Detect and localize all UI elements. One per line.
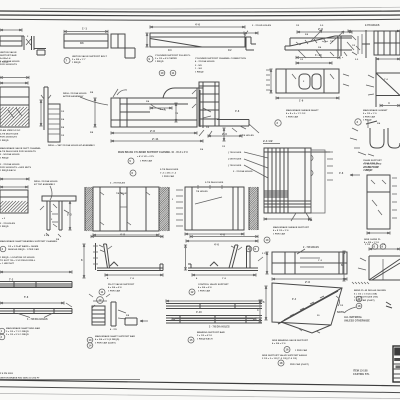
svg-text:2'-0: 2'-0 <box>222 132 227 136</box>
svg-text:2 - 7/8 HOLES: 2 - 7/8 HOLES <box>0 223 16 225</box>
svg-text:3 x 1/2 x 7'-2 1 REQD: 3 x 1/2 x 7'-2 1 REQD <box>6 331 29 333</box>
svg-text:2 - 7/8 HD HOLES: 2 - 7/8 HD HOLES <box>252 25 271 27</box>
detail: gusset plate wedge (right) <box>366 57 400 107</box>
detail: shim post with balloon <box>89 294 148 331</box>
svg-text:+ 1 HEX NUT: + 1 HEX NUT <box>0 263 15 265</box>
note: drill holes leader (left) <box>34 180 58 200</box>
caption: second note bottom-left <box>0 256 36 265</box>
caption: main brake sheave shaft bearing <box>275 109 319 126</box>
detail: main brake sheave shaft bearing plate <box>266 53 349 103</box>
detail: left angle with hatching <box>0 177 29 228</box>
svg-text:4'-0: 4'-0 <box>214 243 219 247</box>
caption: uniton valve support note <box>0 163 31 172</box>
marks near bend note <box>386 302 392 308</box>
detail: long flat bar no.2 (cropped left) <box>0 296 72 314</box>
svg-text:2'-6: 2'-6 <box>150 129 155 133</box>
svg-text:2 - 5/8: 2 - 5/8 <box>195 65 202 67</box>
detail: uniton valve support bar 2 with dimension 1'-1 <box>64 27 135 59</box>
caption: main brake shaft support <box>87 335 135 348</box>
callout circles below channel <box>246 246 259 252</box>
callout circles under filler plate caption <box>159 70 176 76</box>
detail: main support housing (left, cropped) <box>0 76 29 127</box>
svg-text:3/8: 3/8 <box>80 42 84 45</box>
sheet bottom border faint line 3 <box>0 393 400 398</box>
svg-text:4'-8: 4'-8 <box>120 233 125 237</box>
svg-text:1 REQD: 1 REQD <box>195 71 204 73</box>
svg-text:2-4 1/2: 2-4 1/2 <box>263 139 273 143</box>
svg-text:ITEM 13-158: ITEM 13-158 <box>353 370 368 373</box>
detail: pilot valve support bracket A (left) <box>81 233 163 281</box>
svg-text:6 x 1/2 x 1'-8 (13-158): 6 x 1/2 x 1'-8 (13-158) <box>354 293 377 295</box>
svg-text:THIS SIDE PL: THIS SIDE PL <box>364 163 379 165</box>
detail: side bearing valve support plan (box) <box>265 247 347 284</box>
detail: U-bolt clevis pair <box>350 120 400 156</box>
caption: pilot valve support B <box>189 283 229 295</box>
sheet top border line 1 <box>0 11 400 12</box>
detail: cylinder support channel (ladder bracket) <box>192 82 259 151</box>
caption: side plate <box>364 239 386 249</box>
svg-text:1'-1: 1'-1 <box>82 27 87 31</box>
svg-text:NOTE -: NOTE - <box>337 311 346 314</box>
svg-text:{ 7/8 HOLES: { 7/8 HOLES <box>228 165 242 167</box>
svg-text:7/8 HOLES: 7/8 HOLES <box>196 191 208 193</box>
note: hole leaders for sheave support <box>228 152 268 178</box>
detail: vertical rib of main support housing <box>39 87 51 130</box>
sheet bottom border line 1 <box>0 380 400 386</box>
svg-text:ALL MATERIAL: ALL MATERIAL <box>344 316 363 319</box>
svg-text:{ 7/8 HOLES: { 7/8 HOLES <box>228 152 242 154</box>
svg-text:1/2: 1/2 <box>228 49 232 52</box>
svg-text:F 8 PN 2053: F 8 PN 2053 <box>0 373 14 375</box>
svg-text:CYLINDER SUPPORT FILLER PL: CYLINDER SUPPORT FILLER PL <box>155 55 191 57</box>
sheet top border line 2 <box>0 14 400 17</box>
svg-text:1 REQD: 1 REQD <box>155 61 164 63</box>
note: text right of center caption <box>233 170 253 173</box>
svg-text:{ 5/8 HOLES: { 5/8 HOLES <box>228 159 242 161</box>
bottom-left revision text line 2 <box>0 376 140 379</box>
sheet top border line 3 <box>0 18 400 21</box>
detail: support angle bars (center) <box>166 299 262 328</box>
svg-text:1 REQD: 1 REQD <box>0 226 9 228</box>
caption: this side plate note (right) <box>364 163 380 172</box>
svg-text:7/8 HOLES: 7/8 HOLES <box>116 193 128 195</box>
note: holes text above weldment <box>252 25 324 27</box>
svg-text:UNLESS OTHERWISE: UNLESS OTHERWISE <box>344 320 370 323</box>
svg-text:1 REQD: 1 REQD <box>0 140 9 142</box>
caption: side bearing valve support <box>272 339 309 353</box>
detail: brake lever weldment (top right-center) <box>285 27 352 56</box>
caption: holes note left <box>0 60 20 66</box>
svg-text:CASTING STL: CASTING STL <box>353 373 370 376</box>
caption: main brake valve support channel left <box>0 147 41 159</box>
svg-text:4'-8: 4'-8 <box>220 233 225 237</box>
svg-text:4'-10: 4'-10 <box>196 311 202 314</box>
detail: step bracket next to top-left bar <box>26 36 46 55</box>
caption: cylinder support filler plate <box>147 55 191 63</box>
caption: uniton valve support bolt <box>64 55 107 64</box>
detail: main brake support channel (right half) <box>172 181 258 247</box>
svg-text:1/4: 1/4 <box>168 49 172 52</box>
detail: main brake support channel (hatched box left half) <box>85 183 169 237</box>
note: 2 dia holes (top right) <box>365 25 380 27</box>
svg-text:2 - 7/8 HOLES: 2 - 7/8 HOLES <box>110 183 126 185</box>
detail: small angle clip <box>244 30 258 50</box>
detail: end support plate (top far right, cropped) <box>348 29 400 58</box>
detail: support bar plate (top-left, cropped) <box>0 28 24 50</box>
svg-text:3 1/2 x 3 x 1/2 (1'-2 1/2) (2': 3 1/2 x 3 x 1/2 (1'-2 1/2) (2'-0 1/2) <box>262 358 297 360</box>
svg-text:5 x 5: 5 x 5 <box>160 109 166 111</box>
svg-text:1 REQD: 1 REQD <box>363 120 372 122</box>
svg-text:6 x 1/2 x 1'-0: 6 x 1/2 x 1'-0 <box>363 113 377 115</box>
sheet bottom border line 2 <box>0 387 400 393</box>
svg-text:2'-11: 2'-11 <box>152 137 159 141</box>
svg-text:1'-10: 1'-10 <box>315 53 322 57</box>
caption: main sheave support beam <box>264 226 310 243</box>
caption: cylinder support channel connection <box>195 57 246 73</box>
note: drill and tap holes after assembly <box>63 92 108 105</box>
caption: uniton valve support bar <box>0 51 17 63</box>
svg-text:4'-6: 4'-6 <box>195 23 200 27</box>
detail: side bearing valve support elevation with diagonals <box>263 283 344 333</box>
svg-text:2-7/8 HOLES: 2-7/8 HOLES <box>365 25 380 27</box>
detail: taper wedge (bottom right) <box>341 244 400 284</box>
svg-text:2 - 7/8 HOLES: 2 - 7/8 HOLES <box>303 247 319 249</box>
svg-text:1'-6: 1'-6 <box>299 100 304 103</box>
detail: tee bracket <box>40 196 76 241</box>
svg-text:2 x 3/8 x 1'-7: 2 x 3/8 x 1'-7 <box>72 59 86 61</box>
caption: pilot valve support A <box>99 283 135 295</box>
svg-text:3 1/2: 3 1/2 <box>365 244 371 246</box>
svg-text:1 REQD: 1 REQD <box>72 62 81 64</box>
note: drill and tap line under assembly <box>48 144 95 147</box>
svg-text:1 REQD: 1 REQD <box>0 157 9 159</box>
svg-text:2-7/8 HOLES: 2-7/8 HOLES <box>240 135 254 137</box>
svg-text:4'-6: 4'-6 <box>339 172 344 175</box>
caption: main brake and sheave support center <box>118 151 188 178</box>
caption: side support valve support angle bottom-center <box>262 354 309 366</box>
bottom-left revision text line 1 <box>0 373 14 375</box>
sheet top border faint outer line <box>40 7 400 9</box>
caption: bend plate note (dense block) <box>344 289 386 313</box>
detail: pilot valve support bracket B (right) <box>184 233 268 281</box>
caption: main brake gusset <box>355 109 388 125</box>
svg-text:1 REQD: 1 REQD <box>364 170 373 172</box>
caption: brake shaft bearing bars <box>0 327 40 340</box>
note: all material mild steel <box>337 311 370 323</box>
caption: brake shaft support bottom-left <box>0 240 58 252</box>
detail: main brake cylinder support assembly (large center box) <box>90 88 211 143</box>
svg-text:TO SUIT 7/8 x 3 1/2 FIELD DRIL: TO SUIT 7/8 x 3 1/2 FIELD DRILL <box>0 260 36 262</box>
svg-text:2'-6: 2'-6 <box>305 280 310 284</box>
detail: main sheave support beam (tall hatched box) <box>240 135 360 222</box>
detail: tapered filler plate with diagonal <box>145 23 245 53</box>
label: item 13-158 casting stl <box>353 370 370 376</box>
caption: bearing support bars <box>188 331 225 343</box>
note rows under housing <box>0 129 21 142</box>
svg-text:SIDE GUIDE PL: SIDE GUIDE PL <box>364 239 381 241</box>
detail: side plate box (right) <box>367 175 397 235</box>
detail: long flat bar no.1 (cropped left) <box>0 270 72 287</box>
leader clutter over brake lever weldment <box>298 30 362 61</box>
svg-text:5'-6: 5'-6 <box>24 296 29 299</box>
caption: brake rod clevis note <box>363 159 382 172</box>
title block <box>393 346 400 382</box>
note: dia holes for bar 2 <box>18 314 52 322</box>
detail: stacked shim plates <box>48 104 65 142</box>
svg-text:2 x 1/2 x 5'-6 1 REQD: 2 x 1/2 x 5'-6 1 REQD <box>6 334 29 336</box>
svg-text:4'-6: 4'-6 <box>235 110 240 113</box>
svg-text:TO BE FLUSH: TO BE FLUSH <box>364 166 380 168</box>
